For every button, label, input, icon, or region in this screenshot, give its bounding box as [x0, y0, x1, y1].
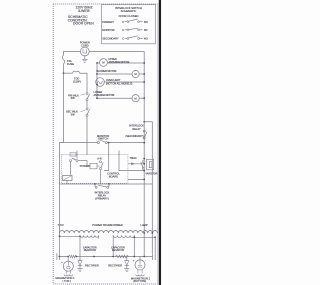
heavy page edge line: [159, 0, 161, 285]
svg-text:(NOT ON ALL MODELS): (NOT ON ALL MODELS): [106, 82, 133, 85]
right bleeder resistor: [116, 255, 129, 258]
left secondary drop: [79, 236, 81, 256]
magnetron 2 terminal marks: [133, 260, 146, 263]
left HV secondary winding: [80, 235, 99, 237]
right HV secondary winding: [113, 235, 134, 237]
svg-text:RELAY: RELAY: [132, 127, 141, 131]
svg-text:SCHEMATIC: SCHEMATIC: [121, 9, 137, 13]
lower antenna motor label: [94, 91, 115, 97]
junction right bus to bypass: [143, 121, 145, 123]
right HV capacitor: [153, 253, 156, 260]
HV fuse label: [145, 173, 157, 176]
svg-text:(SECONDARY): (SECONDARY): [125, 134, 143, 138]
load bus wire: [96, 62, 98, 98]
magnetron 1 filament winding: [64, 275, 72, 276]
wire N top to right bus: [89, 51, 144, 53]
svg-text:FUSE: FUSE: [67, 62, 74, 66]
lower antenna motor: [132, 95, 139, 102]
transformer primary winding: [60, 231, 158, 233]
header text 120V 60HZ 3-WIRE: [75, 6, 92, 13]
wire junction to TOD: [64, 72, 73, 74]
rectifier 1 label: [85, 263, 99, 267]
rectifier 2 diode: [126, 257, 128, 261]
svg-text:C: C: [122, 28, 124, 32]
wire L1 top left: [64, 52, 81, 56]
interlock relay primary contact: [95, 184, 109, 187]
TOD thermal protector: [73, 71, 80, 73]
svg-text:C: C: [122, 20, 124, 24]
svg-text:NO: NO: [144, 37, 148, 41]
primary interlock switch: [86, 92, 88, 94]
power cord label: [80, 40, 90, 47]
left return wire down: [60, 143, 64, 233]
svg-text:A-B: A-B: [97, 156, 102, 160]
svg-text:M: M: [102, 61, 104, 65]
interlock relay secondary label: [125, 124, 144, 138]
HV rail left + bleeder resistor: [59, 256, 68, 258]
svg-text:RECTIFIER: RECTIFIER: [85, 263, 99, 267]
fuse 15A: [62, 55, 64, 66]
oven relay contact: [143, 158, 145, 160]
svg-text:ANTENNA MOTOR: ANTENNA MOTOR: [94, 94, 115, 97]
legend row MONITOR: [102, 28, 124, 32]
arrow connector: [131, 162, 135, 165]
magnetron 1: [67, 257, 69, 262]
monitor switch: [97, 142, 99, 144]
legend row SECONDARY: [102, 37, 124, 41]
wire rung1: [97, 62, 100, 64]
power relay label: [80, 164, 90, 168]
stub wire into box left: [76, 151, 78, 159]
wire between interlock switches: [86, 101, 88, 108]
wire rung2: [97, 73, 132, 75]
svg-text:PRIMARY: PRIMARY: [102, 20, 114, 24]
svg-text:DOOR CLOSED: DOOR CLOSED: [119, 14, 139, 18]
left capacitor label: [83, 246, 97, 252]
interlock relay primary label: [95, 190, 110, 200]
svg-text:SW: SW: [71, 112, 76, 116]
rectifier 2 label: [108, 263, 122, 267]
bottom wire through relay: [60, 183, 153, 185]
right filament tap wire: [134, 236, 155, 238]
svg-text:BOARD: BOARD: [109, 175, 118, 179]
relay contact in box: [70, 160, 72, 162]
wire rung4: [97, 97, 132, 99]
svg-text:VARISTOR: VARISTOR: [145, 173, 157, 176]
magnetron 1 terminal marks: [61, 261, 74, 264]
monitor wire: [64, 73, 145, 142]
wire box output middle: [128, 170, 144, 172]
relay coil block: [63, 176, 73, 181]
wire TOD to interlock line: [80, 73, 87, 92]
svg-text:(150F): (150F): [73, 79, 81, 83]
svg-text:3-WIRE: 3-WIRE: [78, 9, 91, 13]
bypass wire: [144, 122, 152, 253]
left HV capacitor: [57, 253, 60, 260]
power relay coil box: [90, 163, 97, 169]
svg-text:RECTIFIER: RECTIFIER: [108, 263, 122, 267]
primary interlock label: [68, 93, 79, 100]
power cord plug symbol: [80, 47, 89, 56]
monitor switch label: [97, 134, 109, 141]
blower motor label: [97, 70, 117, 73]
right bus wire: [143, 52, 145, 257]
TOD label: [73, 76, 81, 83]
rectifier 1 diode: [79, 257, 81, 261]
wire contact to coil block: [70, 162, 72, 176]
svg-text:M: M: [135, 72, 137, 76]
svg-text:BLOWER MOTOR: BLOWER MOTOR: [97, 70, 117, 73]
HV fuse block: [147, 159, 154, 170]
svg-text:SWITCH: SWITCH: [98, 137, 108, 141]
left HV drop wire: [59, 233, 61, 253]
svg-text:(PRIMARY): (PRIMARY): [95, 196, 109, 200]
secondary interlock label: [66, 110, 78, 117]
svg-text:( TOP ): ( TOP ): [63, 279, 71, 283]
fuse label: [67, 59, 74, 66]
connector on box edge: [70, 153, 76, 156]
svg-text:MONITOR: MONITOR: [102, 28, 114, 32]
ground below power cord: [82, 56, 88, 62]
svg-text:(BOTTOM): (BOTTOM): [133, 279, 146, 283]
svg-text:NC: NC: [144, 28, 148, 32]
svg-text:RESISTOR: RESISTOR: [112, 249, 124, 252]
svg-text:M: M: [135, 96, 137, 100]
control board label in box: [107, 172, 120, 179]
triac label: [130, 157, 137, 160]
legend title: [115, 6, 142, 18]
svg-text:POWER TRANSFORMER: POWER TRANSFORMER: [92, 223, 123, 227]
svg-text:SW: SW: [71, 96, 76, 100]
wire box output lower: [128, 178, 144, 180]
magnetron 2 label: [131, 276, 151, 283]
control board dashed box: [62, 155, 128, 184]
oven light lamp: [96, 78, 105, 87]
wire monitor junction into box: [108, 142, 110, 144]
transformer labels: [58, 223, 148, 227]
interlock relay secondary contact: [143, 130, 145, 132]
schematic page dotted border: [53, 4, 158, 284]
svg-text:C: C: [122, 37, 124, 41]
svg-text:DOOR OPEN: DOOR OPEN: [73, 22, 94, 26]
HV rail wire: [77, 256, 153, 258]
secondary interlock switch: [86, 108, 88, 110]
magnetron 2 filament winding: [136, 275, 144, 276]
wire secondary interlock to control board: [86, 116, 88, 154]
wire fuse to junction: [63, 66, 65, 73]
svg-text:TRIAC: TRIAC: [130, 157, 137, 160]
upper antenna motor: [100, 59, 108, 67]
wire rung3: [105, 81, 145, 83]
A-B contact: [97, 156, 102, 160]
blower motor: [132, 70, 139, 77]
header text SCHEMATIC CONDITION DOOR OPEN: [68, 15, 95, 26]
magnetron 1 label: [56, 276, 76, 283]
magnetron 1 filament leads: [66, 271, 70, 274]
upper antenna motor label: [109, 58, 130, 64]
legend row PRIMARY: [102, 20, 124, 24]
interlock switch legend box: [102, 5, 156, 44]
svg-text:RESISTOR: RESISTOR: [84, 249, 96, 252]
svg-text:T CO: T CO: [58, 223, 64, 227]
left filament tap wire: [60, 235, 81, 237]
oven light label: [106, 79, 133, 85]
svg-text:SECONDARY: SECONDARY: [102, 37, 119, 41]
junction fuse/TOD: [63, 72, 65, 74]
magnetron 2: [139, 257, 141, 261]
svg-text:NO: NO: [144, 20, 148, 24]
svg-text:ANTENNA MOTOR: ANTENNA MOTOR: [109, 61, 130, 64]
right capacitor label: [111, 246, 125, 252]
rectifier 1 ground: [77, 269, 82, 272]
stub wire box right top: [119, 151, 128, 171]
wire A-B down: [100, 170, 102, 184]
magnetron 2 filament leads: [138, 270, 142, 274]
right secondary drops: [112, 235, 114, 256]
svg-text:LAMP: LAMP: [141, 223, 148, 227]
wire box output upper: [128, 163, 144, 165]
rectifier 2 ground: [124, 269, 129, 272]
svg-text:CORD: CORD: [81, 43, 89, 47]
